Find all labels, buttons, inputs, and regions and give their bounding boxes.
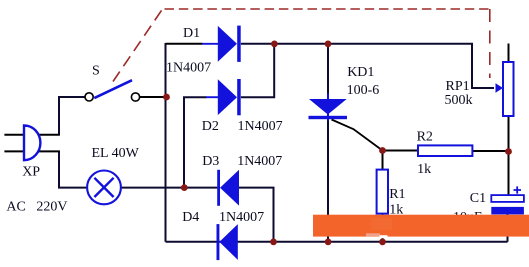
svg-text:S: S <box>92 63 100 78</box>
svg-text:R2: R2 <box>417 130 433 145</box>
svg-text:1N4007: 1N4007 <box>219 210 264 225</box>
svg-text:D3: D3 <box>202 154 219 169</box>
svg-text:XP: XP <box>22 165 40 180</box>
svg-text:EL 40W: EL 40W <box>92 146 140 161</box>
svg-text:1N4007: 1N4007 <box>238 119 283 134</box>
svg-text:D1: D1 <box>183 26 200 41</box>
svg-text:KD1: KD1 <box>347 65 374 80</box>
svg-text:R1: R1 <box>389 187 405 202</box>
svg-text:1k: 1k <box>417 162 431 177</box>
svg-text:C1: C1 <box>470 191 486 206</box>
svg-text:1N4007: 1N4007 <box>237 154 282 169</box>
svg-text:1N4007: 1N4007 <box>166 60 211 75</box>
svg-text:RP1: RP1 <box>446 79 470 94</box>
svg-text:100-6: 100-6 <box>347 83 380 98</box>
svg-text:D2: D2 <box>202 119 219 134</box>
svg-text:D4: D4 <box>182 210 199 225</box>
svg-text:500k: 500k <box>445 93 473 108</box>
svg-text:AC 220V: AC 220V <box>6 200 67 215</box>
